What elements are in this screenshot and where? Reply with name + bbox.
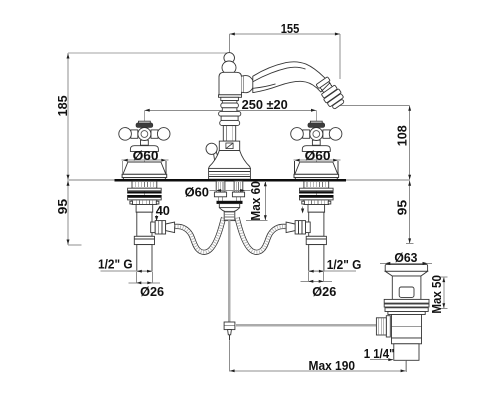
svg-text:Ø60: Ø60 — [185, 185, 209, 200]
svg-text:250 ±20: 250 ±20 — [242, 97, 288, 112]
svg-text:1/2" G: 1/2" G — [327, 257, 362, 272]
svg-text:1 1/4": 1 1/4" — [364, 346, 395, 361]
svg-text:185: 185 — [55, 95, 70, 116]
svg-text:Ø26: Ø26 — [140, 284, 164, 299]
svg-text:Ø63: Ø63 — [394, 250, 417, 265]
svg-text:108: 108 — [394, 125, 409, 146]
svg-text:Ø26: Ø26 — [312, 284, 336, 299]
svg-text:155: 155 — [281, 21, 300, 36]
svg-text:95: 95 — [394, 200, 409, 216]
svg-text:95: 95 — [55, 199, 70, 215]
svg-text:1/2" G: 1/2" G — [98, 256, 133, 271]
svg-text:Max 50: Max 50 — [429, 275, 444, 314]
svg-text:Ø60: Ø60 — [133, 148, 159, 163]
svg-text:Max 60: Max 60 — [248, 181, 263, 220]
svg-text:40: 40 — [156, 203, 170, 218]
svg-text:Ø60: Ø60 — [305, 148, 331, 163]
svg-text:Max 190: Max 190 — [309, 358, 356, 373]
